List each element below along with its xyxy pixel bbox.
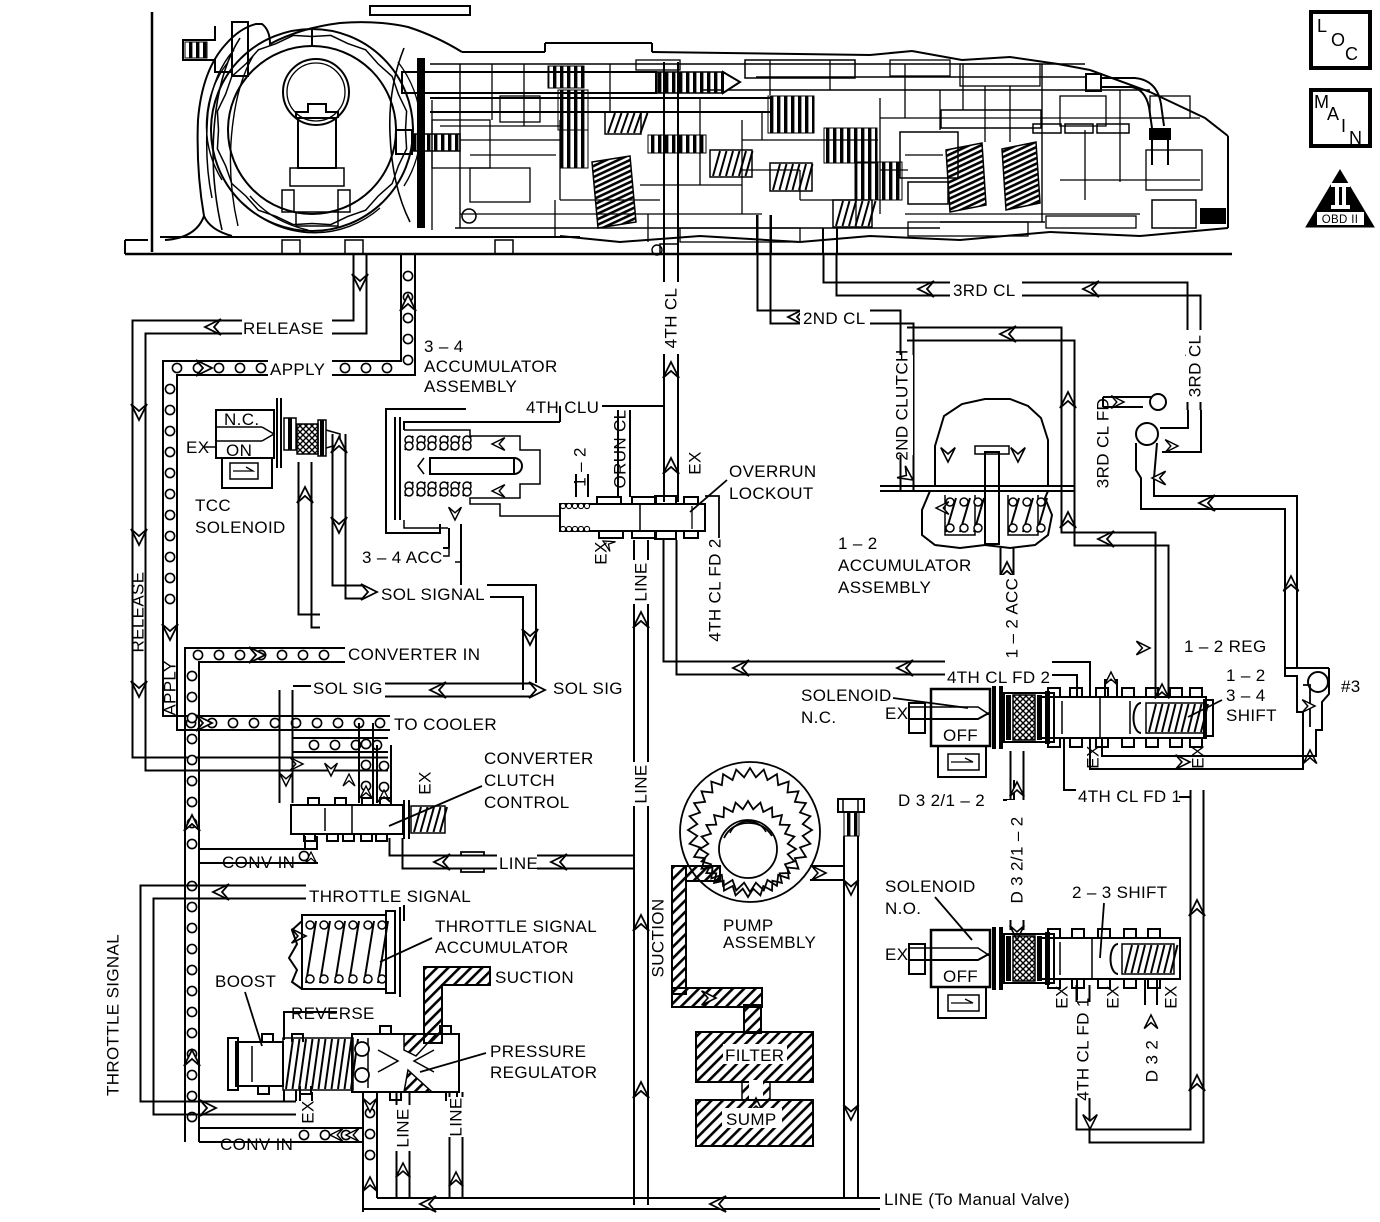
svg-text:SOL SIG: SOL SIG [313,679,383,698]
throttle signal acc labels [380,917,597,962]
svg-text:CONVERTER: CONVERTER [484,749,594,768]
stator support stud [396,130,460,154]
shift valve ex labels [1083,745,1207,768]
3rd cl vertical label [1185,330,1204,402]
line to manual valve channel [363,1190,1070,1212]
svg-text:N: N [1349,128,1362,148]
svg-text:EX: EX [1083,745,1102,768]
svg-text:LINE: LINE [446,1097,465,1136]
svg-text:SHIFT: SHIFT [1226,706,1277,725]
svg-text:EX: EX [1103,985,1122,1008]
clutch packs and gear train [558,60,958,228]
4th clu label and line [524,398,664,422]
apply channel [162,255,416,730]
svg-text:THROTTLE SIGNAL: THROTTLE SIGNAL [309,887,471,906]
svg-text:APPLY: APPLY [160,660,179,715]
1-2 acc vertical label [1002,578,1021,659]
reverse label [284,1004,375,1040]
d32 1-2 label [898,780,1014,810]
pump outlet line [810,836,859,1198]
converter clutch control valve [291,771,447,863]
solenoid no labels [885,877,976,940]
svg-text:LINE: LINE [393,1108,412,1147]
svg-text:OBD II: OBD II [1322,214,1359,226]
svg-text:3RD CL: 3RD CL [1185,335,1204,398]
svg-text:C: C [1345,44,1358,64]
1-2 accumulator assembly [880,399,1075,548]
svg-text:CONTROL: CONTROL [484,793,570,812]
sol sig channel [280,679,623,803]
line channel from ccc valve [390,838,635,873]
svg-text:I: I [1341,116,1346,136]
3rd cl fd check manifold [1103,394,1201,452]
to cooler label [196,715,497,734]
svg-text:SUCTION: SUCTION [648,899,667,978]
svg-text:RELEASE: RELEASE [243,319,324,338]
1-2 stub above overrun [576,474,588,497]
2-3 shift valve [1040,929,1180,988]
svg-text:CLUTCH: CLUTCH [484,771,555,790]
svg-text:ACCUMULATOR: ACCUMULATOR [838,556,972,575]
svg-text:D 3 2: D 3 2 [1142,1040,1161,1082]
solenoid N.O. [885,927,1054,1018]
release vertical label [128,572,147,653]
svg-text:A: A [1327,104,1339,124]
3rd cl channel [824,255,1203,410]
4th cl vertical label [660,282,682,354]
apply vertical label [160,660,179,715]
boost label [215,972,276,1046]
converter housing bolt [183,22,248,76]
solenoid feed line [297,462,320,628]
4th cl fd 2 horizontal label [947,668,1060,687]
1-2 3-4 shift valve [1040,688,1213,747]
3rd clutch riser [823,228,837,255]
4th cl fd1 link [1179,796,1191,798]
shift valve labels [1188,666,1277,725]
svg-text:TO COOLER: TO COOLER [394,715,497,734]
svg-text:EX: EX [885,945,908,964]
svg-text:ACCUMULATOR: ACCUMULATOR [435,938,569,957]
svg-text:L: L [1317,16,1327,36]
svg-text:SOL SIGNAL: SOL SIGNAL [381,585,485,604]
1-2 accumulator labels [838,534,972,597]
svg-text:SOLENOID: SOLENOID [801,686,892,705]
tcc solenoid output line [331,434,363,599]
pump assembly [680,762,820,902]
svg-text:PRESSURE: PRESSURE [490,1042,586,1061]
svg-text:ACCUMULATOR: ACCUMULATOR [424,357,558,376]
orun cl stub [618,410,630,497]
svg-text:OVERRUN: OVERRUN [729,462,816,481]
2-3 shift bottom labels [1052,979,1180,1082]
3rd cl fd vertical label [1093,398,1112,488]
pr line channel 2 [447,1092,465,1198]
4th cl fd1 bracket [1064,738,1181,806]
svg-text:1 – 2: 1 – 2 [838,534,878,553]
ccc valve top pipes [290,723,391,803]
cooler feed channel 2 [293,738,388,752]
pr line1 label [393,1108,412,1147]
svg-text:RELEASE: RELEASE [128,572,147,653]
svg-text:#3: #3 [1341,677,1361,696]
pressure regulator labels [420,1042,597,1082]
MAIN legend box [1311,90,1370,148]
1-2 reg label [1136,637,1266,656]
ex stub below overrun [591,536,615,565]
svg-text:D 3 2/1 – 2: D 3 2/1 – 2 [1007,816,1026,903]
svg-text:N.C.: N.C. [224,410,259,429]
solenoid N.C. [885,686,1054,777]
pr ex label [298,1092,317,1124]
2nd clutch vertical label [892,349,913,460]
sump [696,1100,813,1146]
svg-text:D 3 2/1 – 2: D 3 2/1 – 2 [898,791,985,810]
svg-text:OFF: OFF [943,726,978,745]
solenoid nc labels [801,686,968,727]
3-4 accumulator assembly [386,409,560,585]
svg-text:CONVERTER IN: CONVERTER IN [348,645,480,664]
2nd clutch arrow [897,466,917,486]
3-4 accumulator assembly label [424,337,558,396]
release channel arrow [352,274,368,290]
svg-text:3RD CL: 3RD CL [953,281,1016,300]
svg-text:4TH CLU: 4TH CLU [526,398,599,417]
svg-text:SUMP: SUMP [726,1110,777,1129]
OBD II triangle symbol [1306,170,1374,227]
svg-text:1 – 2: 1 – 2 [570,447,589,487]
svg-text:BOOST: BOOST [215,972,276,991]
pr line channel 1 [394,1092,412,1198]
throttle signal vertical label [103,934,122,1096]
filter sump neck [742,1080,770,1112]
svg-text:SOL SIG: SOL SIG [553,679,623,698]
svg-text:SOLENOID: SOLENOID [885,877,976,896]
2-3 shift labels [1072,883,1168,958]
converter in channel [184,645,480,1142]
svg-text:SOLENOID: SOLENOID [195,518,286,537]
svg-text:LINE: LINE [631,764,650,803]
svg-text:CONV IN: CONV IN [222,853,295,872]
pressure regulator valve [228,1026,459,1100]
svg-text:3 – 4 ACC: 3 – 4 ACC [362,548,443,567]
check ball #3 [1285,668,1361,764]
suction elbow left [424,967,574,1043]
4th cl fd 1 vertical label [1073,997,1092,1100]
throttle signal accumulator [289,907,400,997]
svg-text:LOCKOUT: LOCKOUT [729,484,814,503]
pr line2 label [446,1097,465,1136]
4th clutch feed pipes (vertical) [664,62,678,255]
conv in channel lower [199,1128,363,1154]
svg-text:2 – 3 SHIFT: 2 – 3 SHIFT [1072,883,1168,902]
svg-text:LINE: LINE [499,854,538,873]
svg-text:ASSEMBLY: ASSEMBLY [723,933,816,952]
conv in channel upper [199,836,318,872]
svg-text:1 – 2 REG: 1 – 2 REG [1184,637,1267,656]
svg-text:3RD CL FD: 3RD CL FD [1093,398,1112,488]
svg-text:EX: EX [415,771,434,794]
torque converter [211,29,413,231]
overrun lockout valve [560,496,719,539]
release channel [131,255,388,771]
svg-text:THROTTLE SIGNAL: THROTTLE SIGNAL [435,917,597,936]
case internal structure [213,38,1202,255]
svg-text:REGULATOR: REGULATOR [490,1063,597,1082]
torque converter bell arcs [206,62,420,233]
2nd clutch riser [757,215,771,255]
svg-text:N.O.: N.O. [885,899,921,918]
svg-text:4TH CL FD 2: 4TH CL FD 2 [947,668,1050,687]
svg-text:EX: EX [298,1100,317,1123]
svg-text:THROTTLE SIGNAL: THROTTLE SIGNAL [103,934,122,1096]
transmission case cross-section outline [125,6,1232,254]
svg-text:O: O [1331,30,1345,50]
line vertical label2 [631,562,650,601]
svg-text:2ND CL: 2ND CL [803,309,866,328]
sol signal line [361,584,538,690]
svg-text:OFF: OFF [943,967,978,986]
suction vertical label [648,899,667,978]
filter [696,1032,813,1082]
svg-text:EX: EX [1052,985,1071,1008]
svg-text:EX: EX [591,541,610,564]
4th cl fd 1 channel [1075,790,1205,1143]
svg-text:4TH CL FD 2: 4TH CL FD 2 [705,538,724,641]
line channel vertical [632,540,652,1205]
svg-text:FILTER: FILTER [725,1046,784,1065]
svg-text:EX: EX [1161,985,1180,1008]
planetary gears [941,110,1226,228]
svg-text:ORUN CL: ORUN CL [610,410,629,489]
d32 1-2 channel [1007,751,1027,940]
throttle signal channel [141,884,472,1116]
svg-text:EX: EX [685,451,704,474]
dipstick tube [1086,74,1171,165]
ccc valve labels [389,749,594,826]
pump outlet bolt [838,799,864,836]
3-4 acc label [362,545,461,567]
svg-text:4TH CL: 4TH CL [661,288,680,349]
1-2 acc pipe [997,548,1017,663]
2nd cl channel [758,215,1170,698]
LOC legend box [1311,12,1370,68]
d32 vertical label [1007,816,1026,903]
pr drain channel [363,1092,377,1212]
input shaft [402,58,770,228]
svg-text:REVERSE: REVERSE [291,1004,375,1023]
svg-text:APPLY: APPLY [270,360,325,379]
3rd cl fd output channel [1136,443,1299,668]
4th cl fd 2 channel [664,540,946,676]
suction main pipe [672,866,762,1033]
svg-text:EX: EX [885,704,908,723]
4th cl fd 2 vertical label [705,538,724,641]
svg-text:3 – 4: 3 – 4 [424,337,464,356]
svg-text:4TH CL FD 1: 4TH CL FD 1 [1078,787,1181,806]
svg-text:N.C.: N.C. [801,708,836,727]
svg-text:1 – 2 ACC: 1 – 2 ACC [1002,578,1021,659]
svg-text:CONV IN: CONV IN [220,1135,293,1154]
svg-text:ASSEMBLY: ASSEMBLY [838,578,931,597]
svg-text:2ND CLUTCH: 2ND CLUTCH [892,349,911,460]
svg-text:ASSEMBLY: ASSEMBLY [424,377,517,396]
svg-text:EX: EX [1188,745,1207,768]
4th cl fd 2 link to shift valve [1052,662,1090,697]
overrun lockout labels [570,410,816,512]
pump labels [723,916,816,952]
svg-text:SUCTION: SUCTION [495,968,574,987]
line vertical label1 [631,762,652,806]
throttle signal acc inlet [292,905,404,943]
svg-text:4TH CL FD 1: 4TH CL FD 1 [1073,997,1092,1100]
4th cl pipe [663,255,679,502]
svg-text:LINE: LINE [631,562,650,601]
shift valve bottom loop [1090,738,1316,769]
TCC solenoid [186,398,340,537]
svg-text:3 – 4: 3 – 4 [1226,686,1266,705]
svg-text:LINE (To Manual Valve): LINE (To Manual Valve) [884,1190,1070,1209]
svg-text:TCC: TCC [195,496,231,515]
svg-text:1 – 2: 1 – 2 [1226,666,1266,685]
shift valve top stubs [1105,672,1118,697]
